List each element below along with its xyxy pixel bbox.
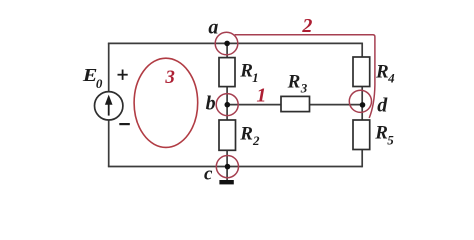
wire node b to R2	[226, 105, 228, 120]
svg-text:b: b	[206, 93, 216, 115]
wire node a to R1	[226, 43, 228, 57]
node c red circle	[216, 156, 238, 178]
node c junction dot	[225, 164, 231, 170]
wire bottom-right vertical up to R5	[361, 150, 363, 168]
svg-text:R: R	[239, 61, 253, 82]
red loop 2 wire from node a to node d	[235, 35, 375, 118]
label b	[206, 93, 216, 115]
label 1 (red branch number)	[256, 85, 266, 107]
svg-text:2: 2	[301, 15, 312, 37]
wire node c to ground	[226, 167, 228, 181]
ground symbol at node c	[219, 180, 233, 184]
wire top-right vertical down to R4	[361, 43, 363, 57]
wire R1 to node b	[226, 87, 228, 105]
label d	[377, 94, 388, 116]
red mesh ellipse 3	[134, 58, 198, 147]
svg-text:1: 1	[252, 70, 259, 85]
label R4	[375, 62, 395, 86]
resistor R1 body	[219, 58, 235, 87]
label E0	[82, 65, 103, 91]
node a junction dot	[224, 41, 230, 47]
wire left vertical (bottom segment below source)	[108, 120, 110, 167]
plus sign of source polarity	[118, 70, 128, 80]
svg-text:R: R	[374, 122, 388, 143]
resistor R3 body	[281, 96, 310, 111]
label R2	[239, 124, 260, 148]
svg-text:R: R	[375, 62, 389, 83]
wire R4 to node d	[361, 87, 363, 105]
svg-text:R: R	[287, 72, 301, 93]
wire bottom horizontal from left corner through node c to right corner	[108, 166, 362, 168]
resistor R4 body	[353, 57, 370, 87]
svg-text:d: d	[377, 94, 388, 116]
label 3 (red mesh number)	[164, 67, 175, 88]
wire top horizontal from left corner through node a to right corner	[108, 42, 362, 44]
wire R3 to node d	[310, 104, 363, 106]
node d red circle	[349, 90, 371, 112]
svg-text:5: 5	[387, 132, 394, 147]
node b red circle	[216, 94, 238, 116]
wire left vertical (top segment above source)	[108, 43, 110, 91]
svg-text:R: R	[239, 124, 253, 145]
wire node b to R3	[227, 104, 281, 106]
node a red circle	[215, 32, 238, 55]
label R5	[374, 122, 394, 147]
node d junction dot	[360, 102, 366, 108]
minus sign of source polarity	[119, 123, 130, 125]
voltage source E0 circle	[95, 92, 123, 120]
wire R2 to node c	[226, 150, 228, 166]
svg-text:3: 3	[300, 80, 308, 95]
resistor R5 body	[353, 120, 370, 150]
node b junction dot	[225, 102, 231, 108]
svg-text:4: 4	[387, 71, 395, 86]
svg-text:3: 3	[164, 67, 175, 88]
wire node d to R5	[361, 105, 363, 120]
svg-text:a: a	[208, 16, 218, 38]
label a	[208, 16, 218, 38]
svg-text:2: 2	[252, 133, 260, 148]
label c	[204, 163, 213, 184]
resistor R2 body	[219, 120, 236, 150]
svg-text:1: 1	[256, 85, 266, 107]
label R1	[239, 61, 258, 85]
label 2 (red loop number)	[301, 15, 312, 37]
voltage source E0 arrow	[105, 95, 113, 116]
label R3	[287, 72, 308, 96]
svg-text:0: 0	[96, 76, 103, 91]
svg-text:c: c	[204, 163, 213, 184]
